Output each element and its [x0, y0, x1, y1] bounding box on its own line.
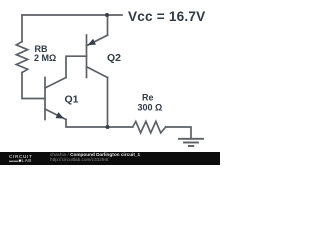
wire left vertical from rail to RB [21, 15, 23, 42]
resistor Re [133, 121, 166, 132]
wire RB bottom to Q1 base corner [22, 73, 45, 99]
svg-text:Q2: Q2 [107, 52, 121, 64]
wire Q1 collector up to Q2 base [66, 56, 87, 77]
arrowhead Q2 emitter (PNP, pointing into bar) [87, 39, 96, 46]
wire Q2 collector down to bottom rail [107, 78, 109, 128]
wire Q1 emitter to bottom rail [66, 120, 133, 128]
transistor Q2 collector diagonal [87, 67, 108, 78]
node junction dot bottom (Q1 emitter / Q2 collector) [106, 125, 110, 129]
credit text line 2 [50, 158, 108, 163]
ground [179, 139, 203, 146]
transistor Q2 emitter diagonal [87, 35, 108, 46]
svg-text:Re: Re [142, 93, 154, 103]
svg-text:2 MΩ: 2 MΩ [34, 53, 56, 63]
svg-text:Q1: Q1 [65, 94, 79, 106]
svg-text:300 Ω: 300 Ω [138, 103, 163, 113]
node junction dot top (Vcc rail / Q2 emitter) [105, 13, 109, 17]
transistor Q1 emitter diagonal [45, 109, 66, 120]
wire top rail [22, 14, 122, 16]
transistor Q1 bar [44, 78, 46, 120]
arrowhead Q1 emitter (NPN, pointing out) [56, 112, 65, 119]
svg-text:Vcc = 16.7V: Vcc = 16.7V [128, 9, 205, 24]
transistor Q2 bar [86, 35, 88, 78]
CircuitLab logo [9, 155, 49, 163]
watermark strip [0, 152, 220, 165]
wire Q2 emitter to top rail [107, 15, 109, 35]
wire Re to ground [166, 127, 191, 139]
transistor Q1 collector diagonal [45, 78, 66, 89]
credit text line 1 [50, 153, 140, 158]
resistor RB [16, 42, 27, 73]
